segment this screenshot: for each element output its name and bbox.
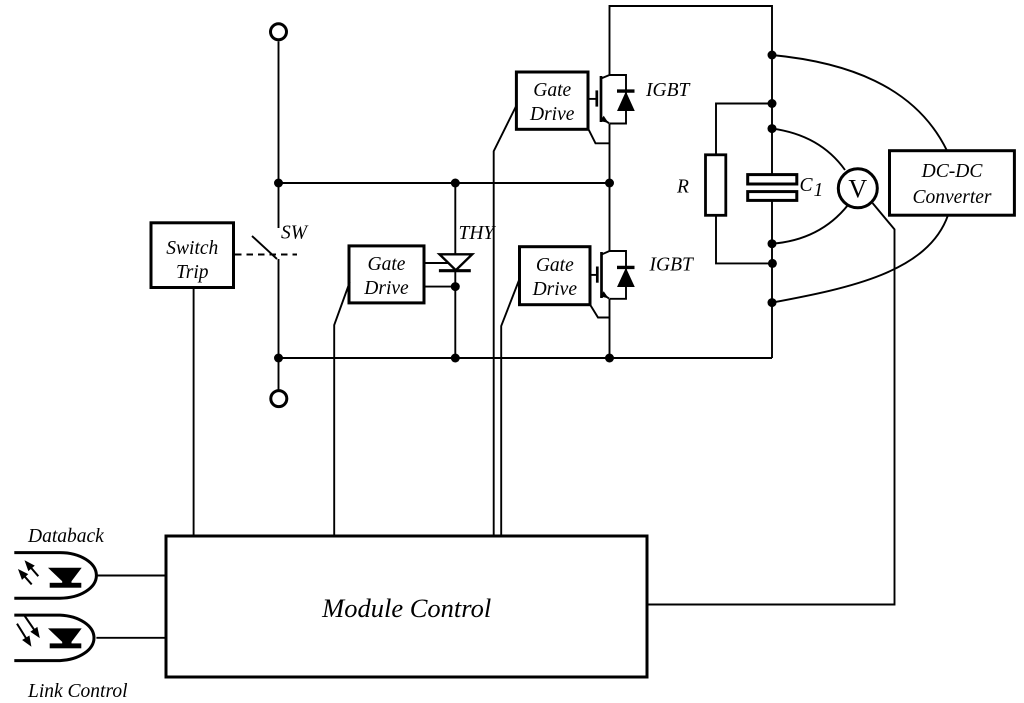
block Switch Trip [151, 223, 234, 288]
wire: right DC-link rail lower [771, 201, 773, 358]
svg-text:Databack: Databack [27, 526, 104, 547]
svg-text:C: C [800, 175, 814, 196]
arrows (Databack, emitting up-left) [20, 562, 39, 584]
wire Databack to Module Control [96, 575, 166, 577]
node: rail top tap [768, 51, 777, 60]
svg-text:IGBT: IGBT [649, 255, 694, 276]
svg-text:Gate: Gate [536, 255, 574, 276]
svg-text:Drive: Drive [363, 278, 409, 299]
wire R branch bottom [716, 215, 772, 263]
diode (lower IGBT freewheel) [617, 266, 635, 269]
svg-text:IGBT: IGBT [645, 80, 690, 101]
wire gate lead (upper) [588, 98, 596, 100]
wire arc rail to DC-DC bottom [772, 215, 948, 302]
wire voltmeter to Module Control [647, 203, 895, 604]
wire gate drive to thyristor cathode [424, 286, 455, 288]
wire Gate Drive(THY) to Module Control [334, 282, 350, 536]
node: mid bus left junction [274, 179, 283, 188]
resistor R [706, 155, 726, 216]
diode (upper IGBT freewheel) [617, 89, 635, 92]
svg-text:1: 1 [814, 180, 824, 201]
optocoupler Databack body [14, 553, 96, 599]
wire Gate Drive (lower) to Module Control [501, 281, 519, 537]
wire kelvin emitter (upper gate drive) [589, 129, 610, 143]
wire mid bus to lower collector [609, 183, 611, 251]
block Gate Drive (lower IGBT) [520, 247, 591, 305]
upper IGBT gate electrode bar [595, 90, 598, 106]
wire top terminal to switch [278, 41, 280, 228]
node: rail V-bottom tap [768, 239, 777, 248]
svg-text:Drive: Drive [529, 104, 575, 125]
svg-text:Drive: Drive [532, 279, 578, 300]
wire arc rail to DC-DC top [772, 55, 947, 151]
wire gate lead (lower) [590, 274, 596, 276]
svg-text:R: R [676, 177, 689, 198]
node: bottom bus at IGBT leg [605, 354, 614, 363]
node: mid bus at IGBT leg [605, 179, 614, 188]
optocoupler Link Control body [14, 615, 94, 661]
svg-text:SW: SW [281, 223, 309, 244]
wire to bottom terminal [278, 358, 280, 391]
svg-text:Module Control: Module Control [321, 593, 491, 623]
wire kelvin emitter (lower gate drive) [590, 305, 610, 318]
svg-text:Gate: Gate [533, 80, 571, 101]
block Gate Drive (upper IGBT) [516, 72, 588, 129]
upper IGBT collector stroke [601, 75, 610, 79]
node: bottom bus left junction [274, 354, 283, 363]
switch SW blade [252, 236, 277, 259]
wire: mid bus [279, 182, 610, 184]
node: bottom bus at thyristor [451, 354, 460, 363]
wire: top bus [610, 6, 773, 75]
wire Gate Drive (upper) to Module Control [494, 107, 516, 537]
lower IGBT body bar [600, 252, 603, 298]
terminal (top) [271, 24, 287, 40]
wire upper emitter to mid bus [609, 124, 611, 184]
wire Link Control to Module Control [96, 637, 166, 639]
node: rail V-top tap [768, 124, 777, 133]
svg-text:THY: THY [459, 223, 497, 244]
svg-text:V: V [848, 175, 867, 204]
wire Switch Trip to Module Control [193, 288, 195, 537]
wire: right DC-link rail upper [771, 55, 773, 174]
thyristor THY [440, 254, 473, 270]
terminal (bottom) [271, 391, 287, 407]
LED (Link Control) [48, 628, 82, 642]
wire: thyristor cathode lead [454, 271, 456, 359]
wire gate drive to thyristor gate [424, 262, 450, 264]
wire lower emitter to bottom bus [609, 299, 611, 358]
upper IGBT body bar [600, 76, 603, 122]
capacitor C1 plate bottom [748, 192, 797, 201]
wire arc rail to voltmeter bottom [772, 205, 848, 244]
capacitor C1 plate top [748, 175, 797, 184]
block Gate Drive (thyristor) [349, 246, 424, 303]
wire arc rail to voltmeter top [772, 129, 845, 170]
lower IGBT collector stroke [602, 251, 610, 255]
svg-text:Trip: Trip [176, 262, 209, 283]
svg-text:Switch: Switch [166, 238, 218, 259]
svg-text:Gate: Gate [368, 254, 406, 275]
voltmeter V [838, 169, 877, 208]
transistor upper IGBT bracket [610, 75, 627, 124]
node: rail bottom tap [768, 298, 777, 307]
arrows (Link Control, receiving down-right) [17, 616, 38, 645]
upper IGBT emitter stroke with arrow [601, 118, 609, 123]
svg-text:Link Control: Link Control [27, 681, 128, 702]
lower IGBT gate electrode bar [596, 267, 599, 283]
node: rail R-bottom tap [768, 259, 777, 268]
node: rail R-top tap [768, 99, 777, 108]
dashed link Switch Trip to SW [235, 254, 297, 256]
LED (Databack) [48, 568, 82, 582]
node: mid bus at thyristor [451, 179, 460, 188]
wire: thyristor anode lead [454, 183, 456, 255]
node: thyristor cathode junction [451, 282, 460, 291]
wire R branch top [716, 104, 772, 155]
lower IGBT emitter stroke with arrow [602, 293, 610, 298]
svg-text:Converter: Converter [912, 187, 991, 208]
block DC-DC Converter [890, 151, 1015, 216]
transistor lower IGBT bracket [610, 251, 627, 299]
wire: bottom bus [279, 357, 773, 359]
wire switch to bottom bus [278, 259, 280, 358]
block Module Control [166, 536, 647, 677]
svg-text:DC-DC: DC-DC [921, 161, 984, 182]
